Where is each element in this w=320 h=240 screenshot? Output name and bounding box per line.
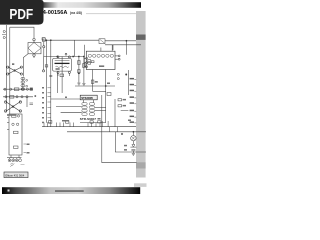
svg-text:STK4605: STK4605: [81, 96, 93, 100]
svg-text:4-00156A: 4-00156A: [43, 10, 68, 16]
svg-text:STR-S6307: STR-S6307: [80, 117, 96, 121]
svg-text:Efkom 431 56/4: Efkom 431 56/4: [5, 173, 24, 177]
svg-text:(na 4/8): (na 4/8): [70, 11, 82, 15]
svg-text:PDF: PDF: [9, 6, 33, 23]
